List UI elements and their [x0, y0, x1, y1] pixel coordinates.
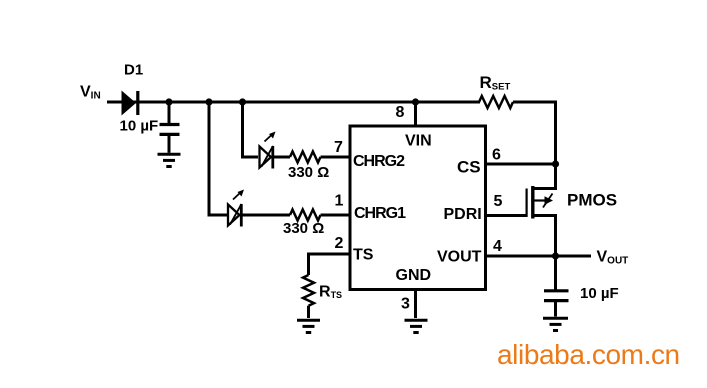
- LED D2 (CHRG2 indicator): [260, 146, 274, 169]
- wire: R2 to IC pin 1: [321, 214, 350, 217]
- wire: CS pin 6: [487, 163, 556, 166]
- svg-text:330 Ω: 330 Ω: [288, 164, 329, 181]
- svg-text:PMOS: PMOS: [567, 191, 617, 210]
- svg-text:VOUT: VOUT: [437, 249, 482, 266]
- IC U1 body: [350, 126, 486, 290]
- resistor R1 330ohm: [290, 152, 321, 163]
- junction: CHRG1 branch tap: [205, 98, 212, 105]
- resistor RSET: [479, 96, 513, 108]
- svg-text:2: 2: [335, 235, 344, 252]
- junction: pin 8 tap: [412, 98, 419, 105]
- svg-text:5: 5: [494, 193, 503, 210]
- wire: LED D3 to resistor R2: [241, 214, 290, 217]
- svg-text:alibaba.com.cn: alibaba.com.cn: [497, 339, 680, 370]
- wire: R1 to IC pin 7: [321, 156, 350, 159]
- svg-text:7: 7: [334, 139, 343, 156]
- svg-text:PDRI: PDRI: [444, 206, 482, 223]
- wire: CHRG2 branch (down from rail to LED row 1): [243, 101, 259, 158]
- transistor PMOS Q1: [527, 186, 556, 219]
- capacitor C2 10uF (output): [544, 291, 569, 317]
- wire: input to diode and top rail: [107, 101, 480, 104]
- svg-text:VIN: VIN: [405, 133, 432, 150]
- svg-text:330 Ω: 330 Ω: [283, 220, 324, 237]
- wire: RTS to ground: [307, 306, 310, 318]
- svg-text:CS: CS: [457, 158, 481, 177]
- junction: input cap tap: [165, 98, 172, 105]
- resistor RTS: [303, 275, 314, 306]
- junction: CHRG2 branch tap: [239, 98, 246, 105]
- wire: CHRG1 branch (down from rail to LED row 2): [209, 101, 227, 216]
- ground (input cap): [158, 154, 181, 166]
- LED D3 light arrow: [233, 190, 244, 200]
- junction: VOUT node: [552, 252, 559, 259]
- LED D3 (CHRG1 indicator): [228, 204, 242, 227]
- svg-text:3: 3: [401, 296, 410, 313]
- svg-text:6: 6: [492, 147, 501, 164]
- wire: PDRI pin 5 to PMOS gate: [487, 214, 528, 217]
- svg-text:1: 1: [335, 193, 344, 210]
- wire: VOUT pin 4: [487, 255, 591, 258]
- wire: TS pin 2 to RTS: [309, 254, 350, 275]
- capacitor C1 10uF (input): [160, 102, 180, 153]
- wire: RSET to PMOS drain (right rail): [513, 102, 556, 190]
- wire: pin 8 to rail: [414, 102, 417, 126]
- svg-text:8: 8: [396, 104, 405, 121]
- svg-text:CHRG1: CHRG1: [354, 205, 406, 222]
- resistor R2 330ohm: [290, 210, 321, 221]
- svg-text:D1: D1: [124, 62, 143, 79]
- svg-text:TS: TS: [353, 247, 374, 264]
- svg-text:GND: GND: [396, 267, 432, 284]
- ground (RTS): [297, 320, 320, 332]
- svg-text:10 µF: 10 µF: [580, 285, 619, 302]
- wire: LED D2 to resistor R1: [273, 156, 290, 159]
- svg-text:4: 4: [493, 238, 502, 255]
- wire: GND pin 3: [414, 290, 417, 318]
- junction: CS node: [552, 160, 559, 167]
- ground (pin 3): [405, 320, 428, 332]
- ground (output cap): [543, 318, 568, 330]
- svg-text:10 µF: 10 µF: [120, 118, 159, 135]
- wire: PMOS source down to output cap: [533, 216, 556, 291]
- LED D2 light arrow: [265, 132, 276, 142]
- svg-text:CHRG2: CHRG2: [353, 153, 405, 170]
- diode D1: [122, 91, 138, 116]
